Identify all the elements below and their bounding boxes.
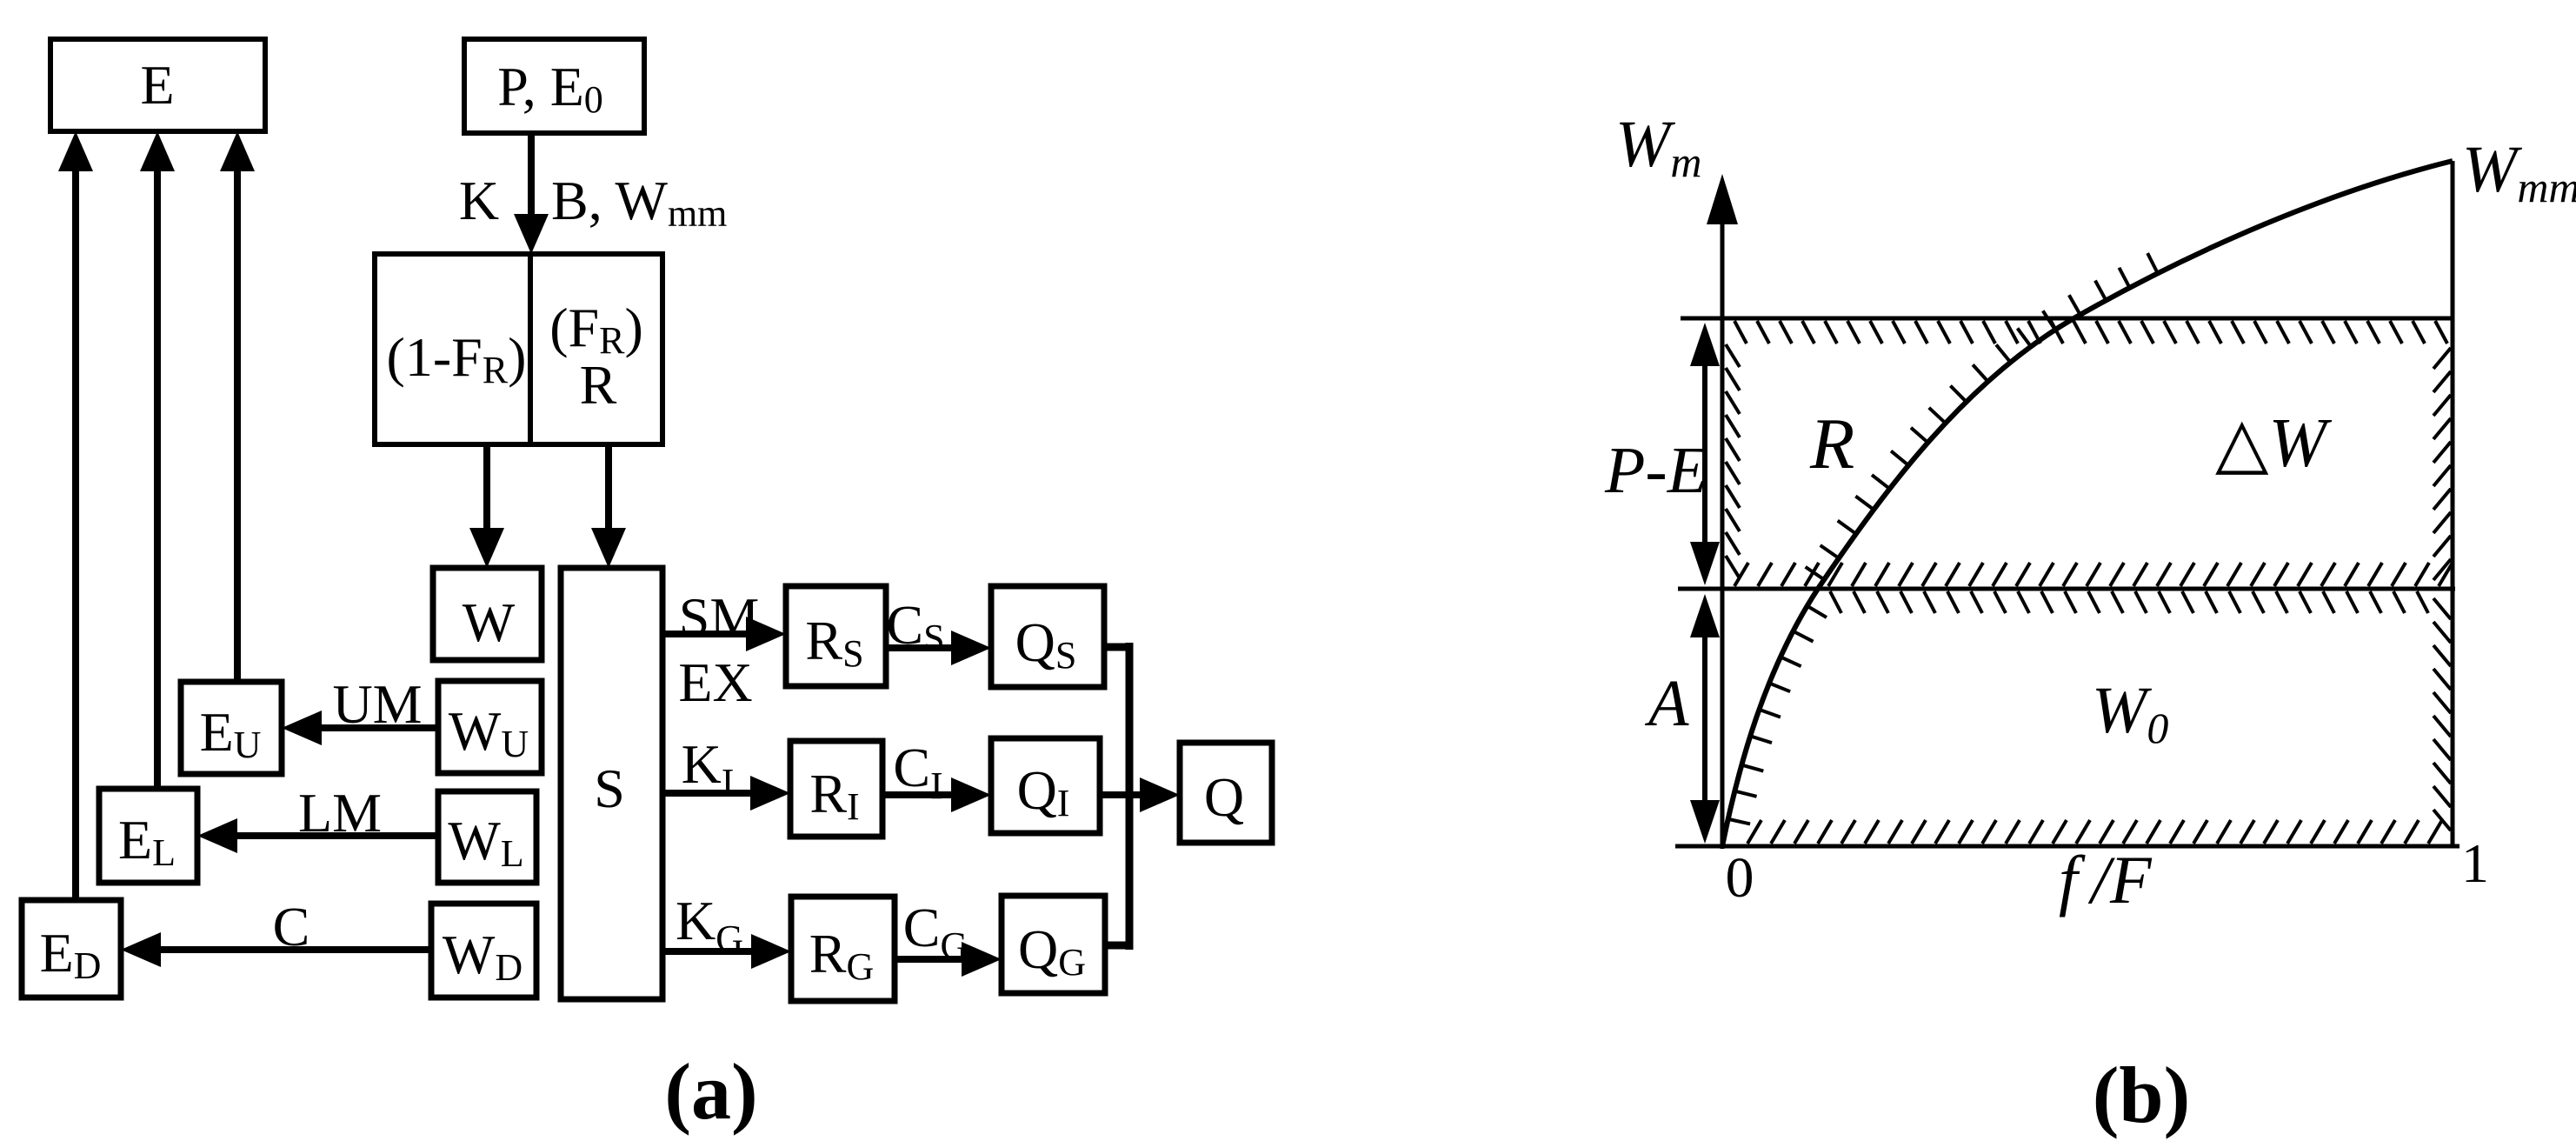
svg-text:UM: UM	[332, 673, 422, 735]
svg-text:(1-FR): (1-FR)	[387, 326, 527, 391]
svg-text:E: E	[140, 54, 174, 116]
hatch below second line	[1830, 591, 1841, 613]
arrow WL to EL	[237, 832, 438, 839]
box QI	[991, 738, 1100, 833]
svg-text:R: R	[580, 354, 617, 416]
hatch above x-axis	[1747, 820, 1761, 844]
svg-text:B, Wmm: B, Wmm	[551, 170, 727, 235]
svg-text:P, E0: P, E0	[497, 56, 603, 121]
svg-text:P-E: P-E	[1604, 434, 1707, 507]
hatch left of right border upper	[2433, 348, 2451, 369]
box ED	[22, 900, 121, 998]
svg-text:W0: W0	[2092, 674, 2168, 752]
svg-text:QS: QS	[1015, 611, 1077, 677]
arrow S to RS	[662, 631, 746, 637]
svg-text:(a): (a)	[664, 1047, 757, 1136]
arrow ED up to E	[72, 171, 79, 900]
svg-text:Wmm: Wmm	[2462, 133, 2576, 211]
svg-text:(b): (b)	[2093, 1051, 2190, 1139]
arrow EL up to E	[154, 171, 161, 789]
svg-text:EU: EU	[200, 701, 262, 766]
box QG	[1002, 896, 1105, 993]
box P,E0	[464, 39, 644, 133]
arrow QI to Q	[1100, 791, 1140, 798]
arrow EU up to E	[234, 171, 241, 682]
svg-text:KI: KI	[682, 733, 735, 804]
svg-text:EX: EX	[678, 651, 752, 713]
arrow WD to ED	[161, 946, 431, 953]
A double arrow	[1702, 622, 1707, 816]
svg-text:1: 1	[2461, 832, 2489, 894]
arrow S to RG	[662, 948, 751, 955]
hatch above second line	[1734, 563, 1748, 586]
hatch left of right border lower	[2433, 598, 2451, 619]
svg-text:K: K	[459, 170, 499, 231]
arrow S to RI	[662, 790, 750, 797]
box WD	[431, 904, 536, 998]
split box (1-FR)|(FR)R	[375, 254, 662, 444]
box WU	[438, 681, 542, 773]
svg-text:WL: WL	[448, 810, 523, 875]
box RG	[791, 897, 895, 1001]
svg-text:WD: WD	[443, 924, 523, 989]
box Q	[1180, 743, 1272, 843]
svg-text:ED: ED	[40, 922, 102, 987]
P-E double arrow	[1702, 352, 1707, 557]
box WL	[438, 791, 536, 883]
arrow WU to EU	[322, 724, 438, 731]
box E	[50, 39, 265, 131]
box S	[561, 568, 662, 999]
arrow RI to QI	[882, 791, 951, 798]
box RS	[786, 586, 886, 686]
svg-text:(FR): (FR)	[549, 297, 643, 362]
box W	[433, 568, 542, 660]
svg-text:W: W	[463, 591, 516, 653]
box QS	[991, 586, 1104, 687]
arrow RS to QS	[886, 644, 951, 651]
svg-text:RI: RI	[809, 763, 859, 828]
svg-text:SM: SM	[679, 586, 760, 648]
svg-text:KG: KG	[676, 890, 743, 960]
hatch right of y-axis (R region)	[1726, 344, 1740, 367]
svg-text:WU: WU	[449, 700, 529, 765]
svg-text:S: S	[594, 757, 625, 819]
x-axis f/F	[1675, 844, 2460, 849]
svg-text:LM: LM	[298, 782, 382, 844]
arrow split-right to S	[605, 444, 612, 528]
svg-text:QG: QG	[1018, 918, 1086, 984]
svg-text:RS: RS	[805, 610, 863, 675]
hatch along curve	[1728, 819, 1750, 824]
box EL	[99, 789, 197, 883]
svg-text:R: R	[1809, 404, 1854, 484]
arrow P,E0 down to split box	[528, 133, 535, 214]
svg-text:Wm: Wm	[1615, 108, 1701, 186]
svg-text:0: 0	[1726, 846, 1754, 910]
arrow split-left to W	[483, 444, 490, 528]
box RI	[790, 741, 882, 837]
svg-text:EL: EL	[118, 809, 176, 874]
top horizontal line	[1681, 317, 2453, 321]
svg-text:f /F: f /F	[2059, 842, 2153, 917]
svg-text:Q: Q	[1204, 766, 1244, 828]
svg-text:△W: △W	[2215, 405, 2333, 482]
box EU	[181, 682, 282, 774]
connector QS down to bus	[1104, 644, 1129, 651]
arrow RG to QG	[895, 956, 962, 963]
curve f/F vs Wm	[1722, 161, 2453, 846]
svg-text:C: C	[273, 896, 310, 958]
right border line	[2451, 161, 2455, 846]
svg-text:RG: RG	[809, 923, 874, 988]
svg-text:QI: QI	[1017, 759, 1070, 824]
svg-text:A: A	[1644, 667, 1689, 740]
y-axis Wm	[1721, 224, 1725, 849]
hatch below top line	[1734, 321, 1747, 344]
connector QG up to bus	[1105, 942, 1129, 950]
second horizontal line	[1678, 587, 2455, 591]
